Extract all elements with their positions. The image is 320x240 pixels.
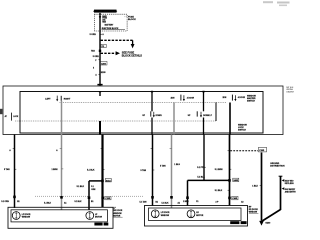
svg-text:5.1 ORN: 5.1 ORN bbox=[1, 201, 9, 203]
svg-text:WINDOW: WINDOW bbox=[22, 217, 31, 219]
svg-text:5.1 BLK: 5.1 BLK bbox=[215, 190, 223, 192]
svg-text:5.1 BRN: 5.1 BRN bbox=[215, 169, 223, 171]
svg-text:5 ORN: 5 ORN bbox=[93, 56, 99, 58]
svg-text:1 BRN: 1 BRN bbox=[183, 201, 189, 203]
svg-text:C305: C305 bbox=[259, 150, 265, 152]
svg-text:GROUND: GROUND bbox=[270, 163, 279, 165]
svg-text:5.1 PPL: 5.1 PPL bbox=[197, 167, 205, 169]
svg-text:DISTRIBUTION: DISTRIBUTION bbox=[270, 166, 285, 168]
svg-text:C1: C1 bbox=[196, 201, 198, 203]
svg-text:WINDOW: WINDOW bbox=[161, 215, 170, 217]
svg-text:4 DOOR: 4 DOOR bbox=[238, 96, 246, 99]
svg-text:S410 W/O: S410 W/O bbox=[285, 180, 294, 183]
svg-text:5.1 TAN: 5.1 TAN bbox=[140, 200, 148, 203]
svg-text:LEFT: LEFT bbox=[45, 99, 51, 101]
svg-text:SWITCH: SWITCH bbox=[247, 100, 255, 102]
svg-text:A1: A1 bbox=[178, 201, 180, 204]
svg-text:HOT AT ALL TIMES: HOT AT ALL TIMES bbox=[93, 10, 118, 13]
svg-text:B1: B1 bbox=[156, 201, 158, 203]
svg-text:5.1 BLK: 5.1 BLK bbox=[75, 201, 83, 203]
svg-text:5 TAN: 5 TAN bbox=[160, 164, 166, 167]
svg-text:C2: C2 bbox=[102, 46, 104, 48]
svg-text:5 TAN: 5 TAN bbox=[4, 168, 10, 171]
svg-text:LOCK: LOCK bbox=[13, 116, 19, 118]
svg-text:5: 5 bbox=[93, 68, 94, 70]
svg-text:BLOCK DETAILS: BLOCK DETAILS bbox=[122, 55, 142, 58]
svg-text:DIAGRM: DIAGRM bbox=[286, 90, 294, 93]
svg-text:4 DOOR: 4 DOOR bbox=[187, 96, 195, 99]
svg-text:5.1 BLK: 5.1 BLK bbox=[87, 170, 95, 172]
svg-text:5.1 BLK: 5.1 BLK bbox=[77, 186, 85, 188]
svg-text:5 TAN: 5 TAN bbox=[141, 169, 147, 172]
svg-text:2DN: 2DN bbox=[171, 97, 175, 99]
svg-text:LF DOOR: LF DOOR bbox=[22, 214, 31, 216]
svg-text:SWITCH: SWITCH bbox=[238, 129, 246, 131]
svg-text:AND ENTRY: AND ENTRY bbox=[285, 190, 297, 193]
svg-text:TAN: TAN bbox=[91, 50, 95, 53]
svg-text:BATTERY: BATTERY bbox=[105, 23, 114, 26]
svg-text:LF DOOR: LF DOOR bbox=[161, 212, 170, 214]
svg-text:1 BLU: 1 BLU bbox=[174, 164, 180, 166]
svg-text:1 BRN: 1 BRN bbox=[52, 169, 59, 171]
svg-text:5.1 BLK: 5.1 BLK bbox=[44, 202, 52, 204]
svg-text:5 ORN: 5 ORN bbox=[90, 34, 97, 36]
svg-text:2DN: 2DN bbox=[223, 97, 227, 99]
svg-text:DOWN: DOWN bbox=[156, 115, 163, 117]
svg-text:BLOCK: BLOCK bbox=[128, 19, 136, 21]
svg-text:B1: B1 bbox=[17, 201, 19, 203]
svg-text:MOTOR: MOTOR bbox=[95, 217, 103, 219]
svg-text:5.1 BLK: 5.1 BLK bbox=[197, 177, 205, 179]
svg-text:KEYLESS: KEYLESS bbox=[285, 183, 295, 185]
svg-text:C2: C2 bbox=[241, 201, 243, 203]
svg-text:MOTOR: MOTOR bbox=[196, 215, 204, 217]
svg-text:1 BLK: 1 BLK bbox=[252, 185, 258, 187]
svg-text:A1: A1 bbox=[64, 201, 66, 204]
svg-text:B1: B1 bbox=[91, 201, 93, 203]
svg-text:ORN: ORN bbox=[91, 189, 96, 191]
svg-text:5.1 BLK: 5.1 BLK bbox=[162, 202, 170, 204]
svg-text:RIGHT: RIGHT bbox=[64, 99, 71, 101]
